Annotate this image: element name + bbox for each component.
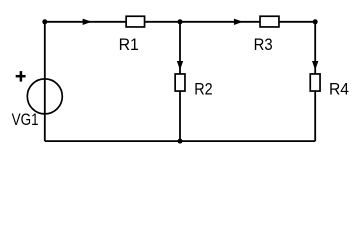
wire top: node A to R1 <box>45 21 126 23</box>
current arrow on wire A-R1 <box>83 19 90 24</box>
wire top: R1 to node B <box>145 21 180 23</box>
svg-text:R4: R4 <box>329 80 349 98</box>
voltage source VG1 plus sign <box>16 75 26 78</box>
svg-text:R2: R2 <box>194 80 212 98</box>
wire bottom return <box>45 140 315 142</box>
svg-text:R1: R1 <box>119 36 139 54</box>
node D junction dot (bottom) <box>178 139 183 144</box>
svg-text:R3: R3 <box>254 36 273 54</box>
svg-text:VG1: VG1 <box>12 111 39 129</box>
voltage source VG1 circle <box>27 79 62 114</box>
node B junction dot <box>178 19 183 24</box>
wire right branch through R4 <box>314 22 316 141</box>
wire left branch through VG1 <box>44 22 46 141</box>
resistor R4 body <box>310 74 320 91</box>
resistor R2 body <box>175 74 185 91</box>
node C junction dot <box>313 19 318 24</box>
wire middle branch through R2 <box>179 22 181 141</box>
resistor R3 body <box>260 16 279 27</box>
node A junction dot <box>42 19 47 24</box>
wire top: R3 to node C <box>279 21 315 23</box>
wire top: node B to R3 <box>180 21 260 23</box>
current arrow into R2 <box>178 62 183 69</box>
current arrow on wire B-R3 <box>235 19 242 24</box>
current arrow into R4 <box>313 62 318 69</box>
resistor R1 body <box>126 16 144 27</box>
